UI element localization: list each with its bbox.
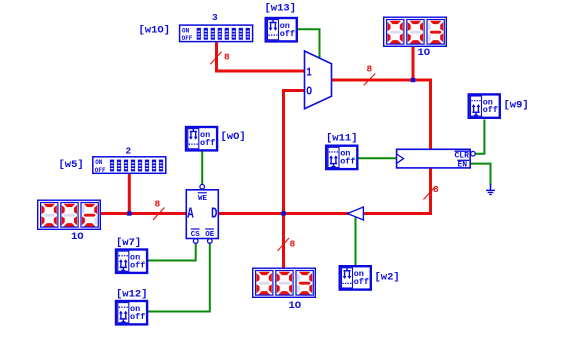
svg-text:2: 2 [126,146,132,157]
register clock input triangle [397,154,404,163]
svg-text:[w5]: [w5] [59,159,84,171]
svg-text:off: off [200,138,215,148]
wire register EN to ground [471,164,491,185]
wire W9 to register CLR [475,120,484,154]
wire bus W5 output down to node A [128,174,131,214]
svg-text:8: 8 [290,239,296,250]
svg-text:OE: OE [205,231,215,239]
svg-text:off: off [340,157,355,167]
svg-text:off: off [483,105,498,115]
svg-text:CLR: CLR [455,152,470,161]
register CLR pin label [455,151,470,160]
svg-text:WE: WE [198,195,208,203]
svg-text:CS: CS [191,231,201,239]
register U3 [397,149,471,168]
wire W11 clock to register [358,157,397,159]
svg-text:off: off [130,312,145,322]
bus width 8 marker on W10 output [210,52,230,65]
DIP switch input W5 [93,157,166,174]
seven-segment display D1 value 002 [38,200,101,229]
toggle switch W11 (off) [326,146,357,169]
junction node A [127,211,131,215]
junction node D [281,211,285,215]
svg-text:[wO]: [wO] [221,131,246,143]
toggle switch W13 (on) [266,18,297,41]
seven-segment display D3 value 003 [253,268,316,297]
ground symbol [486,184,495,195]
RAM WE pin label [198,193,208,203]
wire W2 to buffer enable [355,218,357,267]
svg-text:ON: ON [182,28,190,35]
RAM OE bubble [208,239,213,244]
toggle switch W7 (off) [116,250,147,273]
svg-text:1O: 1O [289,300,302,312]
junction mux output / display D2 [411,78,415,82]
toggle switch W9 (off) [469,94,500,117]
multiplexer U1 [305,51,332,109]
seven-segment display D1 value 002 digit 1 showing 0 [41,203,58,228]
bus width 8 marker on node D display branch [278,238,296,251]
seven-segment display D2 value 003 digit 1 showing 0 [387,20,404,45]
svg-text:[w1O]: [w1O] [139,24,171,36]
seven-segment display D2 value 003 digit 3 showing 3 [427,20,444,45]
svg-text:OFF: OFF [182,35,193,42]
RAM OE pin label [205,229,215,239]
svg-text:[w13]: [w13] [265,3,297,15]
svg-text:8: 8 [433,184,439,195]
wire bus W10 output to mux input 1 [217,42,305,71]
wire bus node D vertical to mux input 0 and display D3 [284,91,305,269]
tri-state buffer U4 [347,207,363,220]
seven-segment display D3 value 003 digit 2 showing 0 [276,271,293,296]
RAM CS pin label [191,229,201,239]
svg-text:A: A [187,207,194,223]
seven-segment display D2 value 003 [384,17,447,46]
toggle switch W12 (off) [116,301,147,324]
svg-text:8: 8 [224,52,230,63]
RAM WE bubble [200,184,205,189]
bus width 8 marker on address bus [153,199,165,221]
seven-segment display D3 value 003 digit 3 showing 3 [296,271,313,296]
wire W12 to RAM OE [148,243,210,311]
register CLR bubble [471,151,476,156]
DIP switch input W10 [180,25,253,42]
svg-text:[w11]: [w11] [326,133,358,145]
bus width 8 marker on register output [424,184,440,200]
svg-text:8: 8 [155,199,161,210]
wire bus register output via buffer input, register drop, mux output [331,80,431,214]
svg-text:off: off [354,277,369,287]
svg-text:1: 1 [306,65,312,79]
svg-text:EN: EN [458,161,468,170]
svg-text:[w12]: [w12] [116,289,148,301]
svg-text:[w2]: [w2] [375,272,400,284]
seven-segment display D1 value 002 digit 2 showing 0 [61,203,78,228]
bus width 8 marker on mux output [364,64,376,86]
wire bus RAM data D to tri-state buffer output [219,212,349,215]
RAM U2 [186,190,218,239]
RAM CS bubble [193,239,198,244]
svg-text:3: 3 [212,12,218,23]
svg-text:8: 8 [367,64,373,75]
wire W0 to RAM WE [201,151,203,185]
wire select W13 to mux [297,29,320,59]
svg-text:[w7]: [w7] [116,237,141,249]
svg-text:1O: 1O [418,47,431,59]
svg-text:D: D [211,207,218,223]
toggle switch W0 (on) [186,127,217,150]
wire bus display D1 to RAM address A [99,212,186,215]
svg-text:off: off [130,260,145,270]
seven-segment display D2 value 003 digit 2 showing 0 [407,20,424,45]
svg-text:off: off [280,29,295,39]
svg-text:[w9]: [w9] [504,100,529,112]
svg-text:ON: ON [95,159,103,166]
seven-segment display D3 value 003 digit 1 showing 0 [256,271,273,296]
svg-text:O: O [306,85,312,99]
register EN pin label [457,160,469,169]
wire bus display D2 drop to mux output net [412,45,415,82]
svg-text:OFF: OFF [95,167,106,174]
seven-segment display D1 value 002 digit 3 showing 2 [81,203,98,228]
toggle switch W2 (on) [340,266,371,289]
svg-text:1O: 1O [71,231,84,243]
wire W7 to RAM CS [148,243,196,260]
